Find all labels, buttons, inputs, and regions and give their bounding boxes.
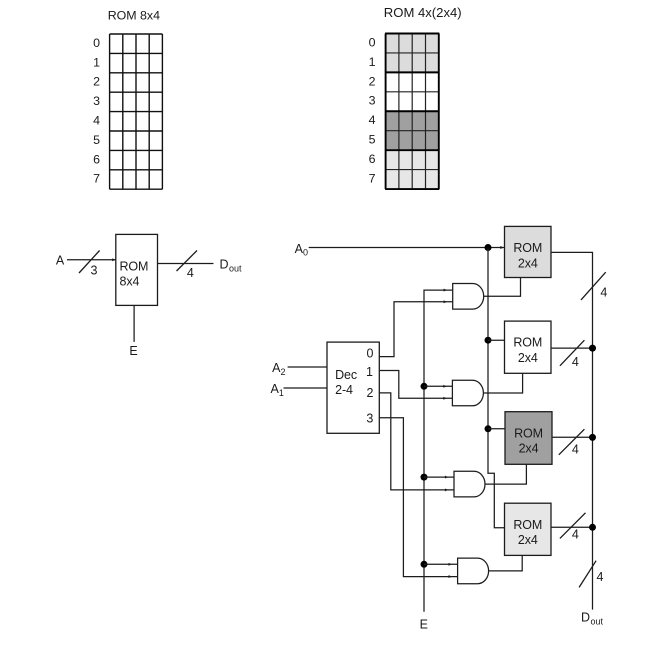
row labels 0-7 right grid (369, 35, 376, 185)
wire E rail (424, 289, 453, 612)
wire decoder out0 to AND1 (379, 300, 452, 356)
svg-text:2-4: 2-4 (335, 383, 353, 397)
wire AND1 to ROM1 enable (484, 278, 521, 297)
node A2 (272, 361, 285, 377)
svg-text:6: 6 (369, 152, 376, 166)
svg-text:1: 1 (369, 55, 376, 69)
junction ROM3-rail (589, 434, 596, 441)
decoder Dec 2-4 U2 (327, 342, 379, 433)
junction E-AND3 (421, 474, 455, 481)
svg-text:2: 2 (369, 74, 376, 88)
row labels 0-7 left grid (93, 36, 100, 186)
svg-text:0: 0 (369, 35, 376, 49)
svg-text:2x4: 2x4 (518, 256, 538, 270)
svg-text:4: 4 (572, 443, 579, 457)
svg-text:4: 4 (600, 286, 607, 300)
node A0 (295, 242, 308, 258)
svg-text:Dec: Dec (335, 368, 357, 382)
junction A0-ROM1 (485, 244, 492, 251)
svg-text:2: 2 (367, 386, 374, 400)
svg-text:1: 1 (93, 55, 100, 69)
svg-text:out: out (591, 617, 604, 627)
node A1 (271, 382, 284, 398)
bus slash 4 (177, 251, 198, 281)
bus slash 3 (79, 251, 100, 278)
memory grid ROM 4x(2x4) (385, 34, 439, 190)
wire AND3 to ROM3 enable (485, 464, 526, 484)
svg-text:3: 3 (93, 94, 100, 108)
svg-text:2: 2 (281, 367, 286, 377)
AND gate G1 (453, 284, 484, 310)
svg-text:4: 4 (597, 570, 604, 584)
wire A input (67, 258, 116, 261)
junction A0-ROM3 (485, 425, 506, 432)
svg-text:ROM: ROM (513, 336, 542, 350)
junction A0-ROM2 (485, 337, 505, 344)
svg-text:0: 0 (93, 36, 100, 50)
wire A0 (309, 246, 505, 249)
svg-text:ROM 4x(2x4): ROM 4x(2x4) (384, 5, 462, 20)
svg-text:2: 2 (93, 75, 100, 89)
ROM 2x4 block U3 (505, 226, 552, 277)
AND gate G2 (452, 380, 483, 406)
svg-text:4: 4 (572, 527, 579, 541)
svg-text:7: 7 (93, 172, 100, 186)
svg-text:7: 7 (369, 172, 376, 186)
svg-text:3: 3 (91, 264, 98, 278)
svg-text:A: A (56, 254, 65, 268)
ROM 2x4 block U5 (505, 412, 552, 465)
AND gate G3 (454, 471, 485, 497)
svg-text:1: 1 (279, 388, 284, 398)
svg-text:4: 4 (93, 114, 100, 128)
junction E-AND2 (421, 383, 453, 390)
memory grid ROM 8x4 (110, 34, 163, 189)
junction ROM4-rail (589, 524, 596, 531)
wire AND2 to ROM2 enable (483, 373, 522, 393)
junction ROM2-rail (589, 345, 596, 352)
ROM 8x4 block U1 (116, 234, 158, 305)
junction E-AND4 (421, 561, 458, 568)
bus slash 4 rail bottom (579, 561, 603, 588)
wire output rail from ROM1 (551, 252, 593, 609)
wire E enable (133, 305, 135, 342)
wire A2 input (288, 366, 327, 368)
svg-text:4: 4 (369, 113, 376, 127)
wire ROM2 output (551, 347, 593, 349)
svg-text:ROM: ROM (514, 426, 543, 440)
svg-text:out: out (229, 264, 242, 274)
svg-text:2x4: 2x4 (518, 351, 538, 365)
bus slash 4 ROM3 (559, 429, 585, 457)
svg-text:E: E (420, 618, 428, 632)
wire decoder out3 to AND4 (379, 418, 457, 578)
svg-text:ROM: ROM (513, 241, 542, 255)
svg-text:0: 0 (367, 347, 374, 361)
bus slash 4 ROM4 (560, 513, 586, 542)
wire decoder out2 to AND3 (379, 393, 454, 491)
svg-text:ROM: ROM (513, 518, 542, 532)
svg-text:1: 1 (366, 365, 373, 379)
svg-text:4: 4 (187, 266, 194, 280)
wire ROM4 output (551, 526, 593, 528)
wire AND4 to ROM4 enable (489, 555, 523, 571)
svg-text:5: 5 (93, 133, 100, 147)
wire Dout output (158, 263, 214, 265)
svg-text:4: 4 (572, 355, 579, 369)
svg-text:3: 3 (369, 94, 376, 108)
svg-text:0: 0 (303, 248, 308, 258)
svg-text:D: D (581, 611, 590, 625)
ROM 2x4 block U6 (505, 503, 552, 555)
bus slash 4 rail top (581, 272, 607, 300)
svg-text:ROM: ROM (120, 260, 149, 274)
svg-text:2x4: 2x4 (519, 442, 539, 456)
bus slash 4 ROM2 (560, 340, 585, 369)
svg-text:ROM 8x4: ROM 8x4 (108, 9, 160, 23)
wire ROM3 output (552, 436, 593, 438)
svg-text:3: 3 (366, 412, 373, 426)
wire A1 input (284, 387, 328, 389)
svg-text:5: 5 (369, 133, 376, 147)
wire A0 rail (488, 248, 505, 528)
svg-text:E: E (129, 344, 137, 358)
ROM 2x4 block U4 (505, 321, 552, 373)
svg-text:8x4: 8x4 (120, 275, 140, 289)
svg-text:6: 6 (93, 152, 100, 166)
svg-text:D: D (220, 257, 229, 271)
AND gate G4 (458, 558, 489, 584)
svg-text:2x4: 2x4 (518, 533, 538, 547)
node Dout (220, 257, 243, 273)
wire decoder out1 to AND2 (379, 371, 452, 400)
node Dout (581, 611, 604, 627)
